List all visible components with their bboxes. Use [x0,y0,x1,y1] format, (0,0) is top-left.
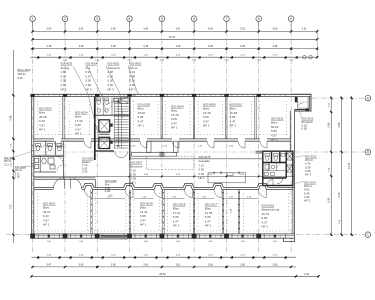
stamp 002-0005e Elektro [82,157,94,174]
svg-text:3.60: 3.60 [272,28,277,31]
right block shafts with X [287,153,293,172]
room stamp 002-0017 [205,203,218,228]
svg-text:3.60: 3.60 [208,263,213,266]
svg-text:5.96: 5.96 [338,122,341,127]
door width dimension strings (bottom rooms) [94,198,259,200]
room stamp 002-0024 [75,111,88,136]
stamp 002-0022 (left margin) [15,165,27,179]
svg-text:3.60: 3.60 [143,263,148,266]
bottom dimension row 3 (28.06 / 2.46) [32,275,319,277]
svg-text:3.46: 3.46 [176,45,181,48]
right WC/technik block walls [263,151,293,185]
stamp 002-0002 Treppe (above plan) [108,62,121,92]
svg-text:2.99: 2.99 [82,170,88,174]
svg-text:3.61: 3.61 [176,28,181,31]
room stamp 002-0019 [140,202,153,227]
outer wall: left [32,94,34,238]
stamp 002-0004 Flur (above plan) [86,62,98,92]
svg-text:2: 2 [64,17,66,21]
bottom-right corner step [284,238,295,241]
stamp 002-0003 Aufzug (above plan) [61,62,73,92]
svg-text:HF 1: HF 1 [203,124,210,128]
bump interior room [298,97,309,109]
outer wall: top (windowed) [32,94,312,96]
entrance vestibule double door arcs [54,178,82,189]
top dimension row 3 [31,47,318,49]
svg-text:HF 1: HF 1 [262,225,269,229]
leader lines of right stamps [291,110,305,184]
bottom wall piers [30,234,261,239]
svg-text:3.11: 3.11 [4,162,9,166]
svg-text:3.61: 3.61 [176,263,181,266]
top wall piers [30,94,261,97]
dashed zone left of corridor [147,156,195,169]
svg-text:28.06: 28.06 [159,273,166,276]
svg-text:3.60: 3.60 [111,28,116,31]
grid bubble stems [33,22,292,32]
core door arcs to corridor [115,151,128,157]
svg-text:HF 1: HF 1 [230,124,237,128]
svg-text:HF 1: HF 1 [199,176,206,180]
top dimension row 4 [31,56,318,58]
svg-text:2.46: 2.46 [209,241,213,243]
door width labels (top rooms) [46,146,234,148]
svg-text:5: 5 [161,17,163,21]
right block fixtures [263,154,286,186]
WC fixtures [35,141,64,171]
grid bubbles 1-9 [30,16,294,22]
room stamp 002-0010 [230,103,243,128]
svg-text:HF 1: HF 1 [138,124,145,128]
svg-text:31.97: 31.97 [169,36,176,39]
svg-text:3.60: 3.60 [46,28,51,31]
svg-text:3.48: 3.48 [143,45,148,48]
svg-text:HF 3: HF 3 [304,199,311,203]
bottom room doors (arcs into rooms) [85,190,267,198]
partition insulation dots [91,192,240,229]
svg-text:HF 3: HF 3 [61,87,68,91]
svg-text:3.48: 3.48 [208,45,213,48]
svg-text:3.61: 3.61 [79,28,84,31]
svg-text:BGFa BGF: BGFa BGF [18,68,32,72]
bottom room partitions [91,190,240,234]
svg-text:449.31: 449.31 [18,72,27,76]
top wall window ticks [38,94,286,96]
left vertical dimension chain [12,50,14,243]
svg-text:3.60: 3.60 [240,263,245,266]
room stamp 002-0021 [43,202,56,227]
corridor stamp 002-0007 [131,161,143,185]
room stamp 002-0009 [203,103,216,128]
door width dims 2.40 [107,196,252,198]
svg-text:3.60: 3.60 [111,263,116,266]
svg-text:2.46: 2.46 [176,241,180,243]
svg-text:HF 1: HF 1 [131,181,138,185]
room stamp 002-0011 [271,117,284,142]
svg-text:HF 3: HF 3 [108,87,115,91]
svg-text:14.15: 14.15 [348,162,351,169]
row B grid line through building [34,151,295,153]
outer wall: bottom (windowed) [32,234,295,238]
room stamp 002-0015 Besprechung [262,204,280,229]
room side dimension columns (dotted) bottom band [38,193,289,231]
stamp 002-0014 (right margin) [304,181,316,203]
svg-text:0.00: 0.00 [15,175,21,179]
elevator door frames [110,124,112,144]
svg-text:0.00: 0.00 [105,189,111,193]
room stamp 002-0005 [138,103,151,128]
left wall window ticks [32,146,34,164]
core WC room (top of core) [97,97,129,116]
stamp 002-0001 WC (above plan) [130,62,142,92]
svg-text:3.48: 3.48 [272,45,277,48]
stair/elevator core walls [95,97,130,160]
svg-text:1: 1 [32,17,34,21]
corridor interior dimension line [34,176,295,178]
bump dark jambs [295,97,309,111]
svg-text:8: 8 [258,17,260,21]
room stamp 002-0004b [171,105,184,130]
svg-text:6.40: 6.40 [327,197,330,202]
corridor extension walls (to rear exit) [95,160,130,187]
stamp 002-0012 WC-D (right margin) [305,155,317,177]
svg-text:2.46: 2.46 [273,241,277,243]
elevator shafts (two, X-crossed) [99,120,110,149]
svg-text:2.46: 2.46 [144,241,148,243]
dotted dim row inside top rooms [35,134,289,136]
svg-text:3.47: 3.47 [46,263,51,266]
left WC cluster south wall [34,178,96,180]
column grid lines 1-9 (dash-dot verticals) [33,22,292,253]
BGF note (top-left) [18,68,32,80]
svg-text:7.03: 7.03 [10,204,13,209]
svg-text:0.00: 0.00 [302,127,308,131]
top room partitions [63,97,257,139]
row grid lines and bubbles (right) [6,98,365,235]
outer wall: top-right bump [291,94,311,111]
corridor north wall (south wall of top rooms) with door openings [34,139,291,141]
right vertical dimension chains [331,96,351,236]
svg-text:HF 1: HF 1 [39,128,46,132]
svg-text:HF 1: HF 1 [171,126,178,130]
svg-text:3.46: 3.46 [240,45,245,48]
svg-text:HF 3: HF 3 [130,87,137,91]
svg-text:3.60: 3.60 [272,263,277,266]
svg-text:9: 9 [290,17,292,21]
svg-text:4: 4 [129,17,131,21]
stamp 002-0006 Flur [105,179,117,193]
svg-text:5.46: 5.46 [10,115,13,120]
svg-text:2.61: 2.61 [302,28,307,31]
exhibition furniture outline [208,172,246,183]
leader lines of left stamps [12,150,36,167]
svg-text:HF 1: HF 1 [205,224,212,228]
doors of top rooms (arcs into corridor) [54,141,267,148]
svg-text:HF 3: HF 3 [305,173,312,177]
svg-text:2.46: 2.46 [47,241,51,243]
svg-text:6: 6 [193,17,195,21]
stamp 002-0013 (right margin) [302,117,314,131]
stair walking line with arrow [117,100,119,147]
svg-text:3.46: 3.46 [79,45,84,48]
svg-text:HF 1: HF 1 [75,132,82,136]
room 0011 south wall [256,151,263,153]
svg-text:5.46: 5.46 [327,122,330,127]
top dimension row 2 (overall 31.97) [33,38,318,40]
svg-text:HF 1: HF 1 [173,224,180,228]
room stamp 002-0018 [173,203,186,228]
svg-text:7: 7 [226,17,228,21]
bottom dimension row 2 [32,266,297,268]
svg-text:2.46: 2.46 [304,273,309,276]
leader lines from top stamps into core [73,66,138,142]
outer wall: right [290,110,294,239]
svg-text:HF 1: HF 1 [271,138,278,142]
top dimension row 1 [33,30,318,32]
stamp 002-0020 (left margin) [4,156,16,166]
corridor south edge line (middle) [130,158,262,160]
svg-text:3: 3 [96,17,98,21]
entrance porch at bottom [101,235,128,240]
svg-text:3.60: 3.60 [79,263,84,266]
svg-text:HF 1: HF 1 [43,223,50,227]
svg-text:3.60: 3.60 [208,28,213,31]
room side dimension columns (dotted) top band [38,101,287,135]
corridor beam / glazed partition with posts [132,141,179,156]
svg-text:3.48: 3.48 [46,45,51,48]
svg-text:2.46: 2.46 [241,241,245,243]
bottom wall window ticks and mullions [44,234,281,238]
top dims right-end connector [316,29,318,59]
left WC cluster walls [34,141,64,179]
dotted dim row inside bottom rooms [35,230,292,232]
bottom dimension row 1 [32,256,297,258]
stair flight treads [114,99,128,149]
svg-text:2.46: 2.46 [79,241,83,243]
stamp 002-0076 Ausstellung [199,155,211,180]
room stamp 002-0023 [39,107,52,132]
svg-text:HF 1: HF 1 [140,223,147,227]
bottom rooms north wall with door niches [34,183,295,189]
window width labels under bottom wall [47,241,277,243]
svg-text:5.46: 5.46 [18,76,24,80]
svg-text:3.60: 3.60 [143,28,148,31]
svg-text:8.19: 8.19 [338,192,341,197]
svg-text:3.61: 3.61 [240,28,245,31]
svg-text:3.48: 3.48 [111,45,116,48]
